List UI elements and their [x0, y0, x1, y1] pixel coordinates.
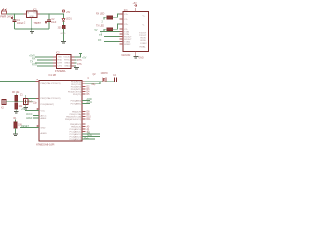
IC3 driver chip top right: [123, 10, 149, 52]
svg-text:VO: VO: [33, 13, 36, 15]
supply +5V IC3: [133, 3, 138, 6]
wire 5V net top: [40, 13, 64, 15]
svg-text:C1+: C1+: [124, 14, 129, 16]
svg-text:C1-: C1-: [124, 19, 128, 21]
ground GND3: [74, 68, 79, 69]
wire gnd to IC1: [20, 125, 39, 128]
wire input net: [7, 13, 27, 15]
resistor R7: [15, 103, 23, 111]
pin stubs IC1 right group2: [82, 112, 91, 122]
wire crystal net 1: [85, 80, 114, 82]
wire net C to IC3: [98, 39, 120, 42]
svg-text:C2-: C2-: [124, 29, 128, 31]
svg-text:INVAL: INVAL: [140, 46, 147, 49]
svg-text:AREF: AREF: [41, 117, 47, 120]
resistor R5: [58, 26, 66, 42]
wire RX to IC2: [29, 55, 53, 58]
svg-text:PD5(T1): PD5(T1): [73, 94, 82, 96]
wire D7 net: [82, 101, 92, 104]
wire reset long net: [0, 81, 36, 83]
wire CTS to IC2: [32, 64, 53, 67]
junction C2: [48, 13, 50, 15]
svg-text:R2IN: R2IN: [141, 40, 146, 42]
svg-text:5V: 5V: [95, 29, 98, 32]
svg-text:PD7(AIN1): PD7(AIN1): [71, 103, 82, 106]
wire aref to IC1: [26, 117, 39, 120]
svg-text:RXD: RXD: [58, 60, 63, 62]
resistor R6: [12, 92, 20, 101]
svg-text:GND1: GND1: [64, 63, 71, 65]
svg-text:PB6(XTAL1/TOSC1): PB6(XTAL1/TOSC1): [41, 82, 61, 85]
wire IC2 gnd: [75, 65, 77, 67]
svg-text:C2+: C2+: [124, 24, 129, 26]
svg-text:IC1 M8: IC1 M8: [49, 75, 57, 77]
resistor R3: [96, 14, 120, 24]
wire vcc to IC1: [21, 108, 39, 111]
net label GN stub: [75, 63, 83, 66]
ground GND6: [14, 112, 19, 113]
ground GND2: [61, 41, 66, 42]
connector X1 power jack: [0, 9, 14, 19]
wire DTR to IC2: [30, 61, 53, 64]
svg-text:V-: V-: [143, 25, 145, 27]
svg-text:DTR: DTR: [58, 63, 63, 65]
svg-text:GND: GND: [29, 16, 34, 18]
pin IC1 xtal right 2: [82, 83, 85, 85]
wire TX to IC2: [32, 58, 53, 61]
svg-text:AVCC: AVCC: [41, 115, 47, 118]
svg-text:FORC: FORC: [141, 43, 148, 45]
ground GND4: [122, 54, 144, 60]
IC1 internal left labels: [41, 82, 61, 135]
ground GND1: [30, 32, 34, 33]
svg-text:FT232RL: FT232RL: [55, 69, 66, 73]
svg-text:GND2: GND2: [64, 66, 71, 68]
svg-text:AREF: AREF: [26, 117, 33, 120]
svg-text:VCCIO: VCCIO: [63, 57, 70, 59]
wire D6 net: [82, 98, 92, 101]
svg-text:RTSO: RTSO: [64, 60, 70, 62]
wire net B to IC3: [99, 34, 120, 37]
svg-text:+5V: +5V: [66, 12, 71, 14]
supply +5V node: [62, 10, 70, 14]
svg-text:PB3(MOSI/OC2): PB3(MOSI/OC2): [65, 119, 82, 121]
svg-text:LED1: LED1: [66, 18, 72, 20]
svg-text:VCC: VCC: [41, 111, 46, 113]
svg-text:TX LED: TX LED: [96, 26, 104, 28]
connector X2 serial: [1, 100, 6, 110]
pin stubs IC1 right group1: [82, 87, 90, 97]
pin stubs IC2 left: [53, 57, 57, 66]
resistor R4: [96, 24, 120, 36]
pin IC3 gnd bottom: [135, 52, 137, 57]
svg-text:PD6(AIN0): PD6(AIN0): [71, 100, 82, 103]
wire avcc to IC1: [26, 113, 39, 116]
svg-text:AGND: AGND: [41, 132, 48, 135]
wire A4 net: [82, 134, 100, 137]
pin stubs IC1 right group3: [82, 124, 90, 134]
svg-text:10K: 10K: [18, 125, 23, 127]
svg-text:GND: GND: [139, 58, 144, 60]
wire crystal net 2: [85, 82, 100, 84]
resistor R1: [14, 118, 23, 134]
svg-text:7805T: 7805T: [34, 21, 42, 25]
svg-text:10uF: 10uF: [51, 22, 57, 24]
svg-text:RX LED: RX LED: [96, 14, 105, 16]
svg-text:ATMEGA8-16PI: ATMEGA8-16PI: [36, 142, 55, 146]
svg-text:R2IN2: R2IN2: [124, 44, 131, 46]
ground GND7: [23, 108, 28, 109]
crystal Q1: [88, 73, 109, 86]
svg-text:MAX232: MAX232: [122, 54, 132, 57]
net label RTS stub: [75, 60, 83, 62]
junction LED: [63, 13, 65, 15]
IC1 microcontroller: [36, 75, 82, 146]
wire A5 net: [82, 137, 95, 140]
wire serial net: [6, 101, 33, 103]
ground GND5: [13, 134, 18, 135]
diode Z1: [20, 95, 33, 107]
svg-text:CTS: CTS: [77, 64, 82, 66]
wire regulator gnd drop: [31, 20, 33, 32]
svg-text:PC6(/RESET): PC6(/RESET): [41, 104, 55, 106]
IC2 interface chip: [55, 52, 71, 72]
svg-text:RTS: RTS: [32, 64, 37, 67]
junction input-C1: [14, 13, 16, 15]
wire ground bus: [15, 28, 50, 30]
capacitor C4: [113, 75, 117, 82]
pin IC1 xtal1: [36, 81, 40, 83]
svg-text:16MHz: 16MHz: [101, 73, 109, 75]
wire A3 net: [82, 132, 100, 135]
wire net A to IC3: [95, 29, 120, 32]
voltage regulator IC5 7805: [24, 9, 42, 25]
svg-text:PD1(TXD): PD1(TXD): [71, 84, 81, 86]
svg-text:GND: GND: [41, 128, 46, 130]
supply +5V at IC2: [75, 54, 87, 60]
svg-text:PB7(XTAL2/TOSC2): PB7(XTAL2/TOSC2): [41, 97, 61, 100]
svg-text:RTS: RTS: [77, 60, 82, 62]
svg-text:RX: RX: [98, 39, 102, 42]
svg-text:PC4(ADC4): PC4(ADC4): [70, 138, 82, 141]
svg-text:TX: TX: [99, 34, 102, 37]
pin IC1 xtal right 1: [82, 80, 85, 82]
pin IC1 xtal: [36, 98, 39, 100]
capacitor C2: [45, 14, 57, 29]
wire LED drop: [63, 14, 65, 18]
wire xtal to IC1: [28, 99, 38, 105]
capacitor C1: [11, 14, 24, 29]
pin IC3 vcc top: [135, 8, 137, 12]
svg-text:AVCC: AVCC: [26, 113, 33, 116]
LED D1 power: [62, 18, 72, 27]
svg-text:GND: GND: [61, 33, 66, 35]
svg-text:+5V: +5V: [82, 56, 87, 59]
pin stubs IC2 right: [71, 57, 75, 66]
junction gnd bus: [31, 28, 33, 30]
svg-text:CTS: CTS: [58, 66, 63, 68]
pin stubs IC3 left: [120, 14, 124, 44]
IC1 internal right labels: [65, 81, 82, 141]
svg-text:TXD: TXD: [58, 57, 63, 59]
